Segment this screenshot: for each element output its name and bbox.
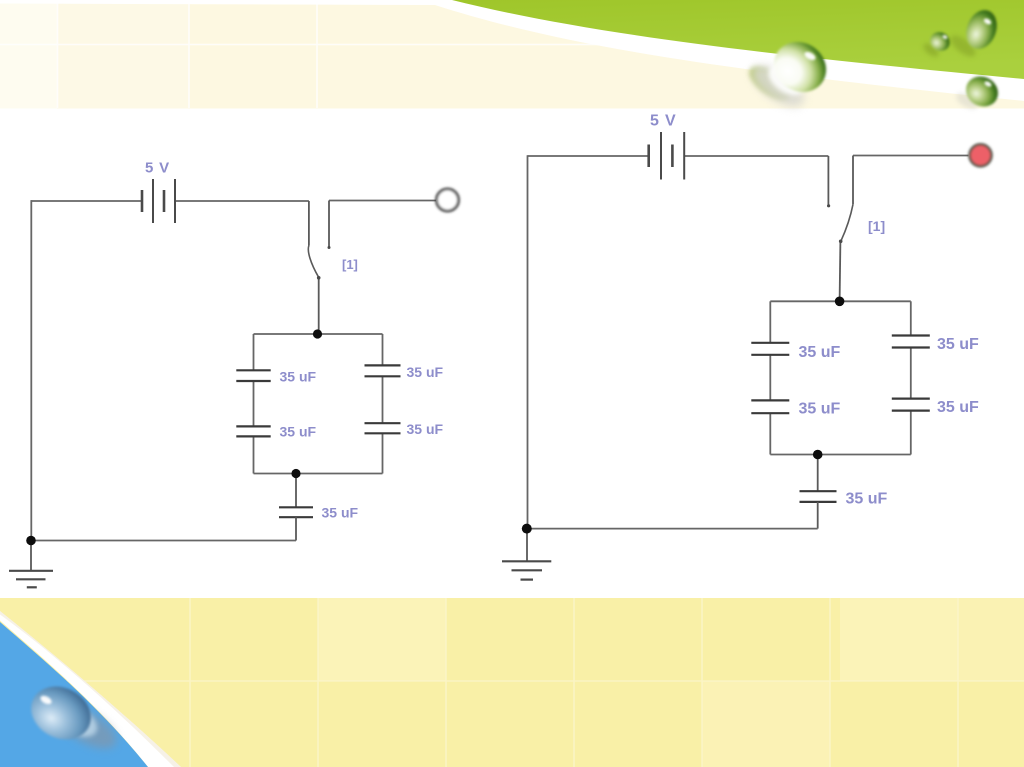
green droplet small: [921, 29, 953, 59]
capacitor C4 plates: [365, 422, 401, 424]
svg-text:35 uF: 35 uF: [407, 421, 444, 437]
capacitor C6 plates: [751, 342, 789, 344]
wire terminal to red circle: [853, 155, 969, 157]
ground symbol: [9, 570, 53, 572]
svg-text:35 uF: 35 uF: [280, 424, 317, 440]
svg-text:5 V: 5 V: [650, 113, 676, 130]
open terminal circle: [437, 189, 459, 211]
node dot bottom-left: [26, 536, 36, 546]
wire C10 to bottom rail: [817, 502, 819, 529]
box right side segments: [382, 334, 384, 365]
box left side segments: [769, 301, 771, 342]
wire left vertical: [30, 200, 32, 540]
green droplet big: [744, 32, 836, 115]
ground symbol right: [502, 560, 551, 562]
node dot top of right box: [835, 297, 845, 307]
battery B1 plate short: [141, 190, 144, 212]
node dot bottom-left right circuit: [522, 524, 532, 534]
capacitor box outline top: [254, 333, 383, 335]
svg-text:[1]: [1]: [868, 218, 885, 234]
ground lead: [30, 541, 32, 571]
wire terminal branch horizontal: [329, 200, 436, 202]
bottom rail wire: [31, 540, 296, 542]
wire battery to switch: [684, 155, 828, 157]
capacitor C5 plates: [279, 506, 313, 508]
wire battery to switch corner: [175, 200, 309, 202]
bottom-left blue corner: [0, 622, 148, 767]
bottom band lighter patches: [318, 598, 1024, 767]
wire C5 to bottom rail: [295, 517, 297, 540]
switch blade: [308, 246, 318, 278]
wire terminal vertical: [852, 156, 854, 205]
node dot bottom of right box: [813, 450, 823, 460]
wire bottom node to C5: [295, 474, 297, 508]
capacitor C7 plates: [751, 399, 789, 401]
capacitor C3 plates: [365, 364, 401, 366]
svg-text:35 uF: 35 uF: [846, 491, 888, 508]
bottom yellow band: [0, 598, 1024, 767]
svg-text:35 uF: 35 uF: [799, 401, 841, 418]
switch pole wire down: [827, 156, 829, 205]
wire left vertical: [527, 155, 529, 528]
capacitor box outline bottom: [770, 454, 911, 456]
capacitor C1 plates: [236, 369, 270, 371]
top band grid lines: [0, 3, 640, 108]
wire blade tip to box: [318, 278, 320, 335]
svg-text:35 uF: 35 uF: [322, 505, 359, 521]
capacitor C2 plates: [236, 425, 270, 427]
capacitor box outline bottom: [254, 473, 383, 475]
battery B2 plate long 2: [683, 132, 685, 180]
switch blade tip dot: [317, 276, 321, 280]
svg-text:35 uF: 35 uF: [937, 399, 979, 416]
bottom-left white curved stripe: [0, 611, 181, 767]
switch pole wire down: [308, 201, 310, 246]
capacitor C8 plates: [892, 334, 930, 336]
svg-text:35 uF: 35 uF: [407, 364, 444, 380]
svg-text:35 uF: 35 uF: [280, 369, 317, 385]
battery B2 plate long: [660, 132, 662, 180]
top cream band: [0, 4, 1024, 109]
capacitor C9 plates: [892, 398, 930, 400]
svg-text:5 V: 5 V: [145, 160, 170, 177]
bottom rail wire: [527, 528, 818, 530]
switch blade: [841, 204, 853, 241]
green droplet upper right: [947, 6, 1002, 61]
red terminal circle: [970, 144, 992, 166]
switch blade tip dot right: [839, 240, 843, 244]
battery B1 plate short 2: [163, 190, 166, 212]
svg-text:[1]: [1]: [342, 257, 358, 272]
svg-text:35 uF: 35 uF: [937, 336, 979, 353]
green top-right corner: [452, 0, 1024, 79]
svg-text:35 uF: 35 uF: [799, 344, 841, 361]
top band lighter left cells: [0, 4, 57, 109]
battery B2 plate short 2: [671, 145, 674, 168]
node dot top of box: [313, 329, 322, 338]
box left side segments: [253, 334, 255, 370]
wire bottom node to C10: [817, 455, 819, 492]
node dot bottom of box: [291, 469, 300, 478]
bottom band grid lines: [0, 598, 1024, 767]
battery B1 plate long 2: [174, 179, 176, 223]
wire top-left from corner to battery: [31, 200, 142, 202]
battery B2 plate short: [647, 145, 650, 168]
switch pole contact dot right: [827, 204, 830, 207]
blue droplet: [22, 676, 123, 757]
capacitor C10 plates: [800, 490, 837, 492]
wire terminal branch vertical: [328, 201, 330, 247]
box right side segments: [910, 301, 912, 335]
capacitor box outline top: [770, 300, 911, 302]
switch pole contact dot: [328, 246, 331, 249]
ground lead: [526, 529, 528, 562]
battery B1 plate long: [152, 179, 154, 223]
wire blade tip to box: [839, 241, 842, 301]
green droplet on stripe: [954, 71, 1004, 113]
wire top-left to battery: [528, 155, 649, 157]
